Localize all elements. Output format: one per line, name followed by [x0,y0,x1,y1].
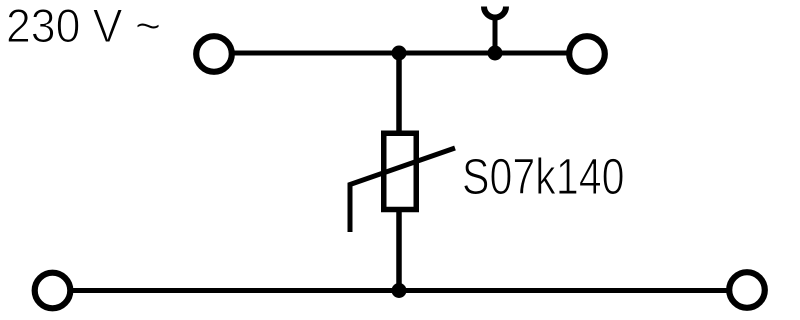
terminal circle bottom-left [35,273,71,309]
node junction dot top-center [392,46,407,61]
socket arc symbol (test tap) [484,7,506,18]
svg-text:230 V ~: 230 V ~ [6,0,161,53]
node junction dot tap [488,46,503,61]
terminal circle top-right [569,36,605,72]
terminal circle bottom-right [729,272,765,308]
wire top (L conductor between terminals) [233,51,568,56]
wire bottom (N conductor between terminals) [71,288,728,293]
wire vertical lower lead from varistor [396,210,402,291]
varistor diagonal stroke with tail [350,148,455,232]
wire tap stem [493,17,498,53]
svg-text:S07k140: S07k140 [462,148,625,205]
node junction dot bottom [392,283,407,298]
terminal circle top-left [196,36,232,72]
wire vertical upper lead to varistor [396,53,402,133]
varistor RV1 body rectangle [384,133,417,209]
